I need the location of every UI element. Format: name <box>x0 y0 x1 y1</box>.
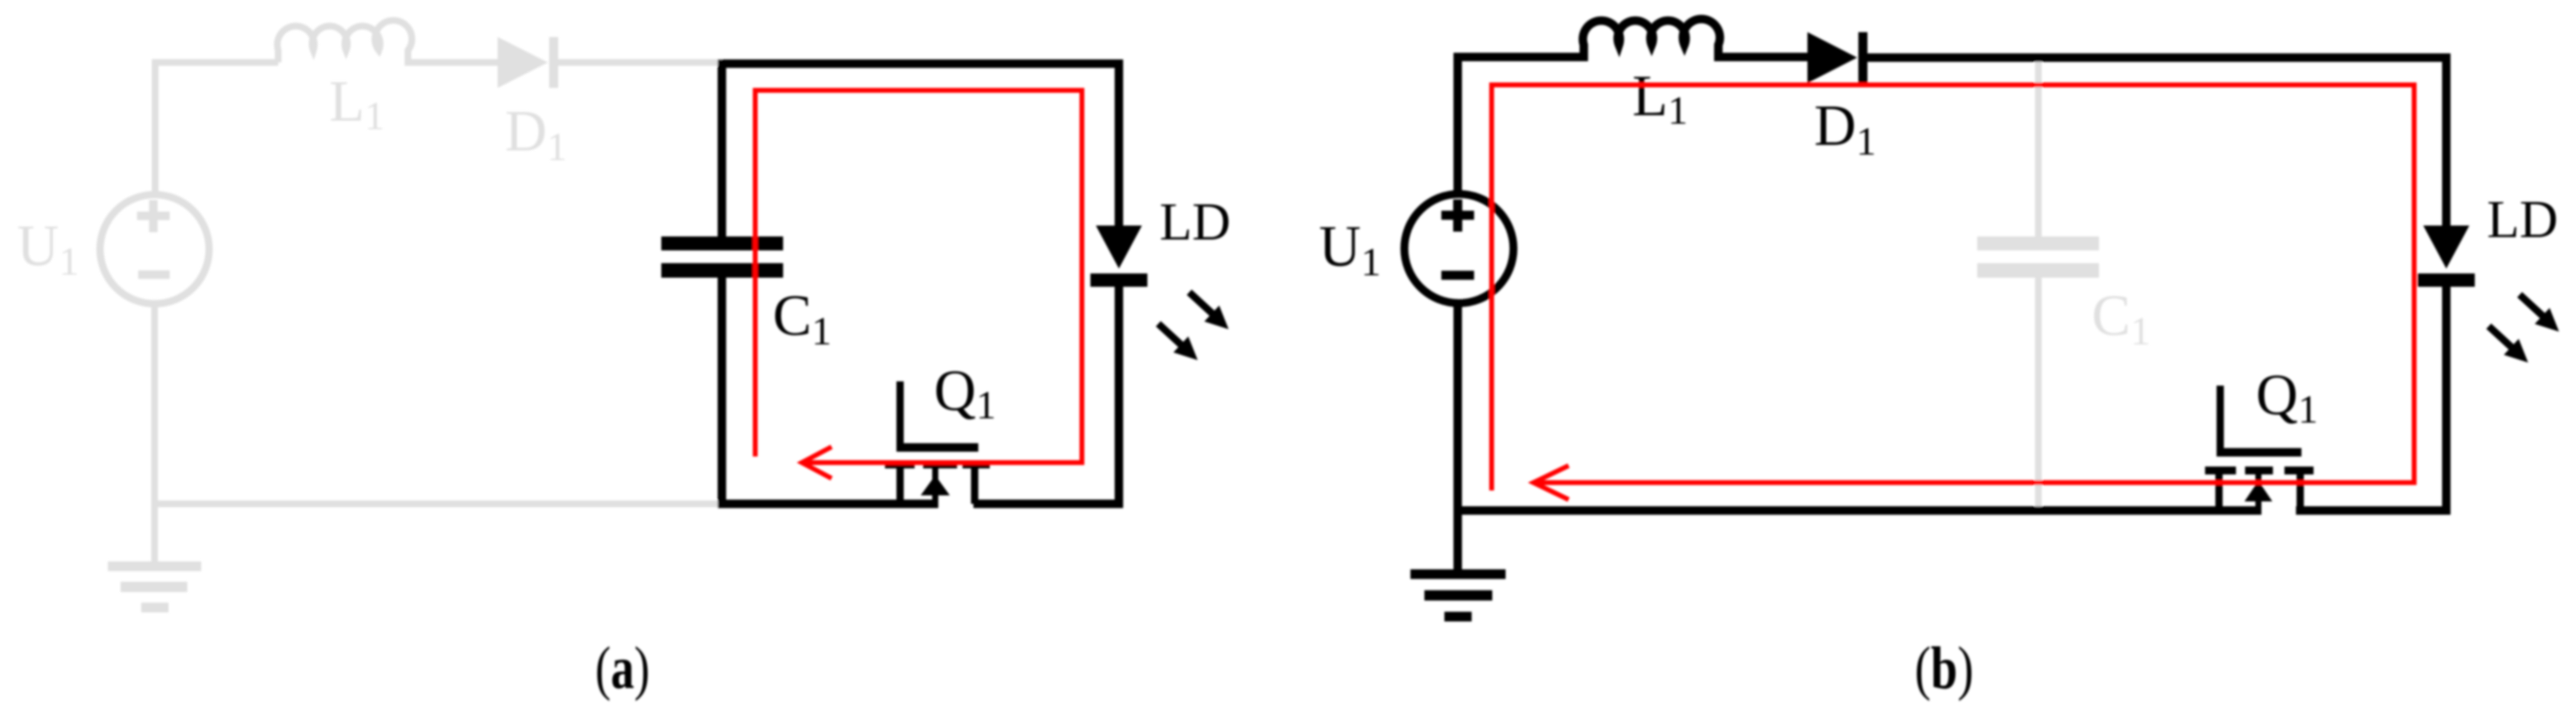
minus sign U1 (b) <box>1441 271 1474 280</box>
wire black: U1 top lead + top rail to inductor (b) + inductor L1 (b) + wire to D1 <box>1458 19 1807 195</box>
transistor Q1 (a) drain lead <box>971 468 978 504</box>
wire red loop (b) <box>1492 85 2414 490</box>
wire black: capacitor node up, top rail, down to LD anode (a) <box>722 64 1119 236</box>
diode D1 (b) anode triangle <box>1807 32 1857 83</box>
ground (b) stem <box>1453 510 1462 574</box>
transistor Q1 (b) gate bar <box>2217 448 2301 457</box>
laser diode LD (a) cathode bar <box>1090 273 1147 287</box>
diode D1 (b) cathode bar <box>1858 32 1867 83</box>
wire black: D1 to top-right corner down to LD anode (b) <box>1867 58 2446 226</box>
wire black: LD cathode down + bottom rail right segment to Q1 drain (a) <box>973 287 1119 504</box>
transistor Q1 (b) gate lead <box>2217 386 2224 449</box>
red arrowhead (b) <box>1533 466 1569 500</box>
minus sign U1 (a) <box>138 270 170 279</box>
ground (b) bar 3 <box>1444 612 1472 621</box>
ground (b) bar 2 <box>1424 591 1492 601</box>
svg-text:LD: LD <box>2487 190 2558 249</box>
wire black: bottom rail left segment from Q1 source to U1 branch (b) <box>1458 304 2261 510</box>
transistor Q1 (a) gate bar <box>896 443 978 452</box>
svg-text:U1: U1 <box>1319 213 1381 284</box>
wire gray: D1 to node of C1 branch <box>558 59 722 66</box>
svg-text:L1: L1 <box>329 69 385 138</box>
ground (a, gray) stem <box>152 504 158 566</box>
transistor Q1 (a) gate lead <box>896 381 904 444</box>
light arrow 2 of LD (a) <box>1158 324 1181 345</box>
capacitor C1 (b, gray) bottom lead <box>2035 278 2042 510</box>
svg-text:C1: C1 <box>2092 283 2151 353</box>
laser diode LD (b) cathode bar <box>2418 273 2475 287</box>
capacitor C1 (b, gray) top lead <box>2035 58 2042 236</box>
transistor Q1 (b) body stem <box>2255 474 2261 510</box>
wire gray: U1 bottom lead down to bottom rail <box>152 304 158 504</box>
wire gray: U1 top lead + top wire to inductor L1 (a) <box>155 62 278 195</box>
wire red loop (a) <box>755 90 1082 463</box>
svg-text:D1: D1 <box>1814 93 1876 164</box>
svg-text:C1: C1 <box>773 283 832 353</box>
wire gray: bottom rail to black loop <box>155 501 722 507</box>
wire black: LD cathode down + bottom rail right segment to Q1 drain (b) <box>2296 287 2446 510</box>
svg-text:U1: U1 <box>17 213 79 284</box>
diode D1 (a, gray) cathode bar <box>549 37 558 88</box>
voltage source U1 (a, gray) circle <box>100 195 209 304</box>
capacitor C1 (a) bottom plate <box>661 263 783 278</box>
ground (a, gray) bar 3 <box>141 603 169 612</box>
transistor Q1 (a) body stem <box>932 468 938 504</box>
red current loop (a) <box>755 90 1082 478</box>
svg-text:LD: LD <box>1160 193 1230 252</box>
wire black: C1 bottom lead + bottom rail left segment to Q1 source (a) <box>722 278 938 504</box>
laser diode LD (b) triangle <box>2423 226 2469 269</box>
laser diode LD (a) triangle <box>1096 226 1142 269</box>
light arrow 1 of LD (b) <box>2520 295 2543 316</box>
capacitor C1 (b, gray) top plate <box>1977 236 2099 250</box>
transistor Q1 (b) body arrow <box>2244 481 2272 501</box>
svg-text:(b): (b) <box>1915 634 1974 701</box>
capacitor C1 (b, gray) bottom plate <box>1977 263 2099 278</box>
svg-text:Q1: Q1 <box>2256 362 2318 432</box>
capacitor C1 (a) top plate <box>661 236 783 250</box>
transistor Q1 (b) channel segments <box>2205 467 2314 475</box>
svg-text:Q1: Q1 <box>934 358 996 427</box>
transistor Q1 (a) source lead <box>896 468 904 504</box>
light arrow 2 of LD (b) <box>2489 326 2512 347</box>
transistor Q1 (b) drain lead <box>2297 474 2304 510</box>
transistor Q1 (a) body arrow <box>921 475 950 495</box>
ground (a, gray) bar 1 <box>108 561 201 571</box>
light arrow 1 of LD (a) <box>1189 292 1212 313</box>
svg-text:(a): (a) <box>595 634 650 701</box>
red arrowhead (a) <box>802 447 832 478</box>
plus sign U1 (a) <box>137 200 170 232</box>
ground (b) bar 1 <box>1410 569 1506 579</box>
svg-text:D1: D1 <box>505 98 567 169</box>
voltage source U1 (b) circle <box>1404 194 1513 303</box>
plus sign U1 (b) <box>1441 199 1474 232</box>
transistor Q1 (a) channel segments <box>885 461 990 469</box>
transistor Q1 (b) source lead <box>2215 474 2223 510</box>
svg-text:L1: L1 <box>1632 63 1688 133</box>
red current loop (b) <box>1492 85 2414 500</box>
inductor L1 (a, gray) <box>278 21 498 62</box>
diode D1 (a, gray) anode triangle <box>498 37 548 88</box>
ground (a, gray) bar 2 <box>121 582 187 592</box>
